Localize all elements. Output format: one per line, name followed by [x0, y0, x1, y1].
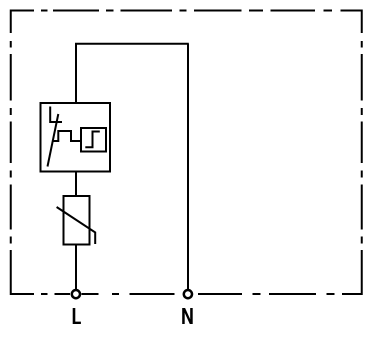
switch moving contact blade (inside disconnector) — [48, 114, 59, 167]
enclosure boundary: top side (dash-dot) — [11, 10, 363, 12]
enclosure boundary: bottom side (dash-dot, broken at terminals) — [11, 293, 363, 295]
thermal disconnector (device box) — [41, 103, 111, 172]
label L — [73, 308, 81, 324]
label N — [182, 308, 193, 324]
enclosure boundary: left side (dash-dot) — [10, 10, 12, 296]
wire: N branch vertical from top wire to terminal N — [187, 44, 189, 290]
terminal N (circle) — [184, 290, 192, 298]
wire: top horizontal connecting L branch and N branch — [75, 43, 189, 45]
wire: disconnector to varistor — [75, 172, 77, 197]
varistor U-characteristic stroke (diagonal with tail) — [57, 207, 96, 244]
wire: L branch vertical from top wire down to disconnector — [75, 44, 77, 103]
terminal L (circle) — [72, 290, 80, 298]
thermal monitoring element (small box) — [81, 128, 106, 152]
step symbol inside monitoring element — [85, 132, 100, 148]
varistor (MOV) body — [64, 196, 90, 245]
wire: varistor to terminal L — [75, 245, 77, 291]
enclosure boundary: right side (dash-dot) — [361, 10, 363, 296]
switch fixed contact lead (inside disconnector) — [50, 107, 62, 123]
actuator linkage (square pulse line to monitor) — [52, 131, 81, 141]
